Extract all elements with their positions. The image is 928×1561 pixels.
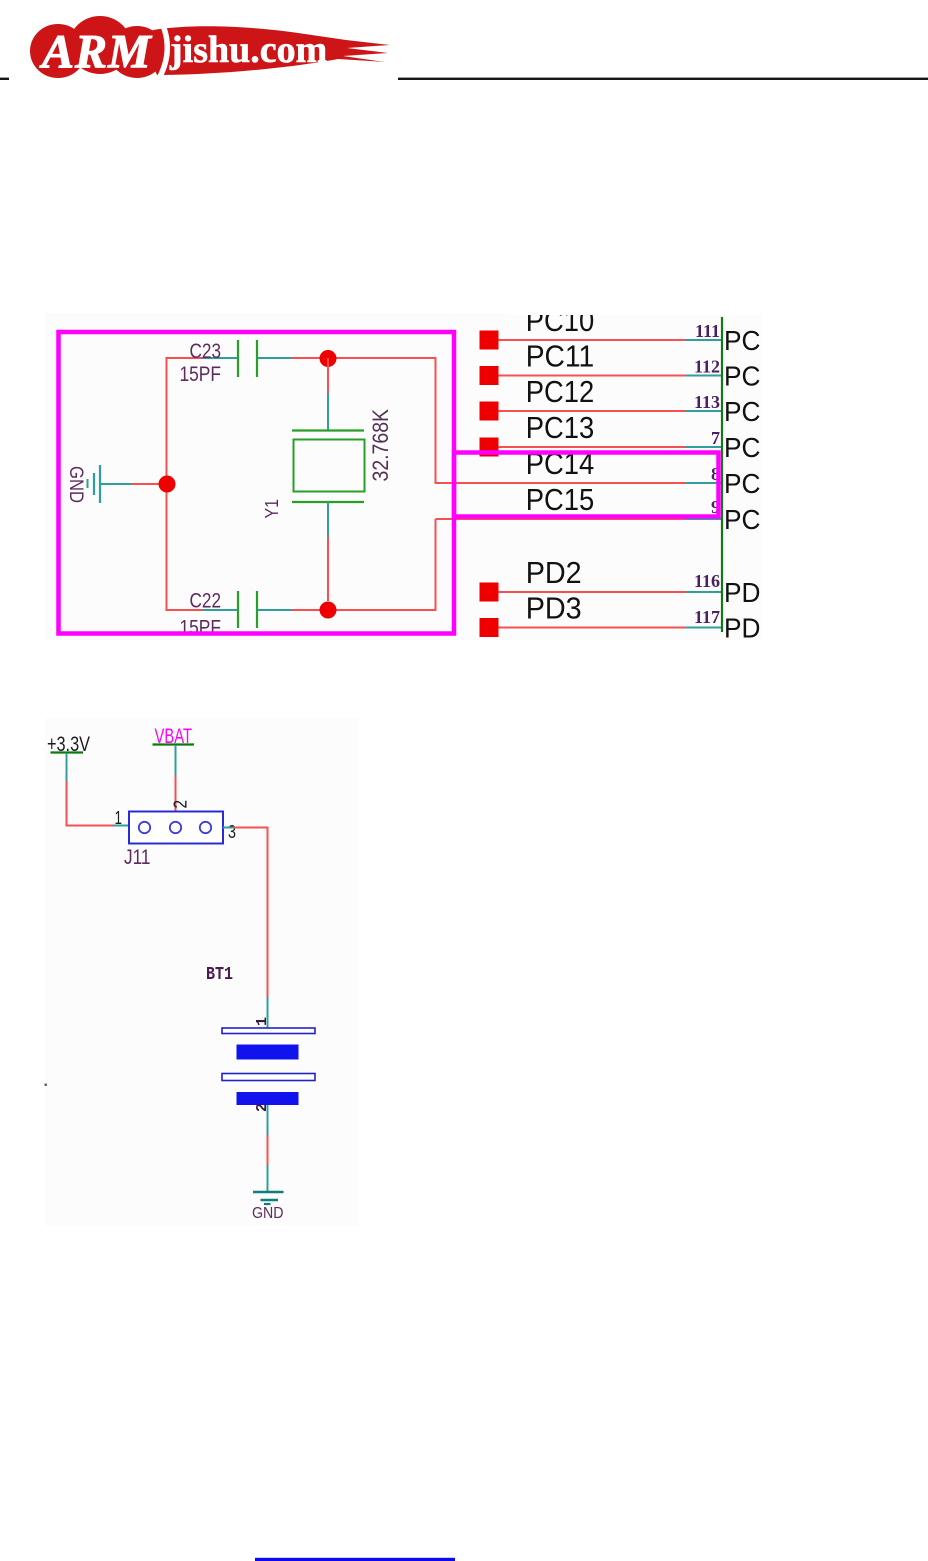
- svg-text:1: 1: [254, 1017, 271, 1026]
- wire down to battery teal: [267, 997, 269, 1029]
- wire PC11 row red: [499, 375, 687, 377]
- wire VBAT down teal: [175, 745, 177, 775]
- wire crystal top lead teal: [327, 393, 329, 430]
- svg-text:PC: PC: [724, 468, 761, 499]
- wire +3.3V down teal: [66, 753, 68, 781]
- pin square PD3: [480, 618, 499, 637]
- wire to pin1 teal: [114, 825, 130, 827]
- wire top row red to junction and to x435: [292, 357, 437, 359]
- wire top row red from left corner: [166, 357, 203, 359]
- wire pin3 teal: [223, 827, 233, 829]
- J11 pin circle 2: [170, 822, 181, 833]
- svg-text:3: 3: [228, 822, 236, 842]
- wire PC13 row teal stub: [686, 446, 721, 448]
- svg-text:15PF: 15PF: [180, 363, 222, 386]
- pin square PC10: [480, 331, 499, 350]
- svg-text:PC: PC: [724, 504, 761, 535]
- junction dot bottom: [320, 602, 337, 619]
- wire PC14 row teal stub: [686, 482, 721, 484]
- svg-text:7: 7: [711, 428, 720, 448]
- wire vertical to PC15 row: [435, 519, 437, 611]
- svg-text:C22: C22: [190, 590, 222, 613]
- junction dot top: [320, 350, 337, 367]
- IC body edge (green line): [721, 317, 723, 632]
- wire GND pin teal: [100, 483, 131, 485]
- wire battery down teal 2: [267, 1165, 269, 1191]
- svg-text:PC11: PC11: [526, 339, 595, 374]
- svg-text:32.768K: 32.768K: [368, 409, 393, 482]
- scan area tint fragment 2: [45, 718, 358, 1226]
- crystal Y1 top plate: [292, 429, 364, 431]
- ground symbol GND (fragment 1, rotated left): [99, 465, 101, 503]
- ground symbol (fragment 2): [253, 1191, 284, 1194]
- svg-text:PD: PD: [724, 613, 761, 644]
- wire PC11 row teal stub: [686, 375, 721, 377]
- wire down to battery red: [267, 828, 269, 997]
- battery BT1 plate 3 (long): [222, 1074, 315, 1081]
- wire PD3 row red: [499, 627, 687, 629]
- svg-text:1: 1: [115, 808, 123, 828]
- svg-text:PC: PC: [724, 361, 761, 392]
- wire PC14 row red: [436, 482, 687, 484]
- wire VBAT down red: [175, 775, 177, 811]
- ground bar 3 (short): [87, 479, 89, 488]
- J11 pin circle 1: [139, 822, 150, 833]
- wire PC15 row teal stub: [686, 518, 721, 520]
- highlight box 2 (magenta, around PC14/PC15): [454, 453, 719, 517]
- battery BT1 plate 4 (short solid): [237, 1092, 299, 1105]
- battery BT1 plate 1 (long): [222, 1028, 315, 1034]
- wire vertical to PC14 row: [435, 358, 437, 484]
- wire bottom row teal into C22: [203, 609, 238, 611]
- wire bottom row teal out of C22: [258, 609, 292, 611]
- crystal Y1 body: [294, 440, 365, 492]
- svg-text:jishu.com: jishu.com: [169, 29, 327, 71]
- wire battery down red: [267, 1135, 269, 1165]
- wire +3.3V down red: [66, 781, 68, 827]
- pin square PC11: [480, 366, 499, 385]
- svg-text:112: 112: [694, 357, 720, 377]
- svg-text:2: 2: [171, 800, 191, 809]
- wire bottom row red to junction and x435: [292, 609, 437, 611]
- svg-text:PC: PC: [724, 396, 761, 427]
- svg-text:PC13: PC13: [526, 410, 595, 445]
- wire PC13 row red: [499, 446, 687, 448]
- wire crystal bottom lead teal: [327, 502, 329, 537]
- wire PC10 row teal stub: [686, 339, 721, 341]
- power bar VBAT: [153, 743, 195, 745]
- wire left vertical (GND rail): [166, 358, 168, 610]
- stray dot: [45, 1084, 48, 1087]
- svg-text:117: 117: [694, 607, 720, 627]
- svg-text:PD3: PD3: [526, 591, 582, 626]
- svg-text:15PF: 15PF: [180, 617, 222, 640]
- svg-text:GND: GND: [252, 1205, 284, 1222]
- svg-text:PC12: PC12: [526, 374, 595, 409]
- svg-text:PC15: PC15: [526, 482, 595, 517]
- pin square PC12: [480, 402, 499, 421]
- wire PD2 row red: [499, 591, 687, 593]
- svg-text:PC: PC: [724, 325, 761, 356]
- capacitor C23 plates: [237, 340, 239, 377]
- svg-text:PD2: PD2: [526, 555, 582, 590]
- wire pin3 red to corner: [233, 827, 269, 829]
- ground bar 3 (short): [264, 1203, 271, 1205]
- header rule: [0, 12, 928, 80]
- svg-text:113: 113: [694, 392, 720, 412]
- pin square PD2: [480, 583, 499, 602]
- wire top row teal out of C23: [258, 357, 292, 359]
- svg-text:BT1: BT1: [206, 965, 233, 985]
- wire PD2 row teal stub: [686, 591, 721, 593]
- wire top row teal into C23: [203, 357, 238, 359]
- svg-text:Y1: Y1: [261, 499, 282, 519]
- svg-text:GND: GND: [65, 466, 87, 503]
- svg-text:PC: PC: [724, 432, 761, 463]
- crystal Y1 bottom plate: [292, 501, 364, 503]
- wire PC12 row red: [499, 410, 687, 412]
- battery BT1 plate 2 (short solid): [237, 1045, 299, 1060]
- wire bottom row red from left corner: [166, 609, 203, 611]
- logo ARMjishu.com: [30, 16, 390, 82]
- hyperlink underline (bottom): [255, 1558, 455, 1561]
- svg-text:ARM: ARM: [39, 26, 153, 79]
- junction dot GND: [159, 476, 176, 493]
- pin square PC13: [480, 438, 499, 457]
- svg-text:C23: C23: [190, 340, 222, 363]
- wire crystal top lead red: [327, 358, 329, 393]
- highlight box 1 (magenta): [59, 332, 455, 634]
- svg-text:116: 116: [694, 571, 720, 591]
- wire to pin1 red: [66, 825, 114, 827]
- capacitor C22 plates: [237, 591, 239, 628]
- J11 pin circle 3: [200, 822, 211, 833]
- wire PC12 row teal stub: [686, 410, 721, 412]
- wire PD3 row teal stub: [686, 627, 721, 629]
- wire PC15 row red: [436, 518, 687, 520]
- wire PC10 row red: [499, 339, 687, 341]
- wire crystal bottom lead red: [327, 537, 329, 601]
- svg-text:PD: PD: [724, 577, 761, 608]
- power bar +3.3V: [51, 751, 84, 753]
- scan area tint fragment 1: [45, 313, 762, 640]
- svg-text:111: 111: [695, 321, 720, 341]
- wire GND pin red: [131, 483, 167, 485]
- svg-text:J11: J11: [124, 846, 151, 869]
- wire battery down teal: [267, 1105, 269, 1135]
- connector J11 body: [129, 812, 223, 844]
